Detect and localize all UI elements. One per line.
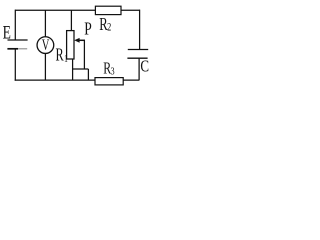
svg-text:V: V — [42, 36, 50, 54]
wire left column lower (battery down to bottom-left corner) — [14, 49, 16, 81]
resistor R3 body — [95, 78, 123, 85]
wire R1 top lead — [70, 10, 72, 30]
wire top bus — [15, 9, 140, 11]
svg-text:1: 1 — [64, 53, 68, 64]
wire voltmeter top lead — [44, 10, 46, 37]
svg-text:2: 2 — [107, 21, 111, 34]
wire rheostat tap vertical from arrow — [83, 40, 85, 69]
wire voltmeter bottom lead — [44, 53, 46, 80]
wire capacitor bottom lead — [138, 58, 140, 80]
rheostat wiper arrow P — [74, 38, 85, 43]
wire R1 bottom lead — [72, 59, 74, 80]
wire left column upper (top-left corner down to battery) — [14, 10, 16, 40]
svg-text:C: C — [140, 57, 149, 76]
voltmeter V circle — [37, 37, 54, 54]
resistor R2 body — [95, 6, 121, 14]
svg-text:3: 3 — [111, 65, 115, 78]
svg-text:P: P — [84, 20, 92, 39]
rheostat R1 body — [67, 31, 74, 59]
wire tap step down to bottom bus — [87, 69, 89, 80]
wire right column (top-right corner down to capacitor) — [139, 10, 141, 50]
battery E plates — [7, 40, 27, 49]
wire bottom bus — [15, 79, 140, 81]
wire tap horizontal connector — [72, 68, 88, 70]
svg-text:E: E — [3, 22, 11, 44]
svg-text:R: R — [56, 46, 65, 65]
capacitor C plates — [127, 50, 148, 59]
